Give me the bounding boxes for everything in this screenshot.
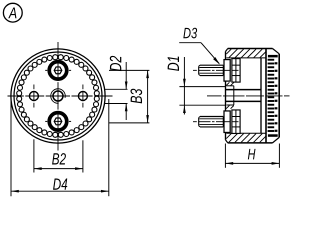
side view outline	[226, 49, 280, 143]
front horizontal centerline	[8, 95, 113, 97]
bottom stud washer (side)	[224, 111, 230, 133]
dimension D3 leader	[179, 43, 220, 65]
top stud shank centerline	[193, 69, 239, 71]
bottom stud boss ring (front)	[49, 113, 67, 130]
top stud shank	[199, 65, 224, 75]
top stud washer (side)	[224, 60, 230, 82]
top stud boss (side)	[232, 59, 240, 83]
center bore counterbore lines	[227, 86, 234, 105]
front view outer circle D4	[11, 49, 105, 143]
bottom stud centerline (horiz)	[45, 120, 71, 122]
label D4	[53, 178, 67, 189]
bottom stud shank centerline	[193, 121, 239, 123]
center bore thread lines	[226, 90, 262, 102]
section hatch bottom band	[226, 134, 266, 143]
dimension D2 extension lines	[104, 89, 127, 103]
right hole circle	[78, 92, 87, 101]
dimension B3 extension lines	[109, 70, 149, 123]
dimension H extension lines	[225, 144, 279, 168]
bottom stud hub hex	[54, 118, 62, 125]
dimension B3 line and arrows	[146, 70, 149, 123]
dimension H line and arrows	[225, 162, 279, 165]
label D3	[183, 28, 197, 39]
left hole vertical centerline	[33, 85, 35, 108]
side left face line	[225, 52, 227, 140]
label D1	[168, 57, 179, 71]
label H	[248, 149, 256, 160]
dimension D4 extension lines	[11, 98, 109, 197]
bottom band upper boundary	[226, 132, 266, 134]
section hatch web above bore	[226, 82, 234, 85]
bottom stud boss (side)	[232, 110, 240, 134]
top stud centerline (horiz)	[45, 69, 71, 71]
dimension D1 extension lines	[179, 87, 225, 106]
label B2	[52, 153, 66, 164]
top stud hub hex	[54, 67, 62, 74]
dimension D2 line and arrows	[125, 62, 128, 120]
center threaded hole	[51, 89, 66, 104]
section hatch top band	[226, 49, 266, 58]
top stud boss ring (front)	[49, 62, 67, 80]
bottom stud shank	[199, 117, 224, 127]
left hole circle	[29, 92, 38, 101]
section hatch web below bore	[226, 105, 234, 108]
label D2	[110, 56, 122, 71]
right hole vertical centerline	[82, 85, 84, 108]
top band lower boundary	[226, 57, 266, 59]
dimension D4 line and arrows	[11, 190, 109, 193]
side main centerline	[207, 95, 290, 97]
front view inner rim circle	[14, 52, 102, 140]
view label A (circled)	[3, 3, 22, 22]
knurl ball dimple ticks	[275, 62, 278, 132]
grip face wall	[265, 49, 267, 143]
dimension B2 line and arrows	[34, 167, 83, 170]
recess inner wall	[260, 58, 262, 133]
front vertical centerline	[57, 42, 59, 151]
dimension B2 extension lines	[34, 139, 83, 172]
knurl bars (grip grooves)	[268, 55, 278, 137]
label B3	[130, 89, 142, 104]
dimension D1 line and arrows	[183, 57, 186, 115]
ball ring (grip balls)	[17, 55, 100, 138]
